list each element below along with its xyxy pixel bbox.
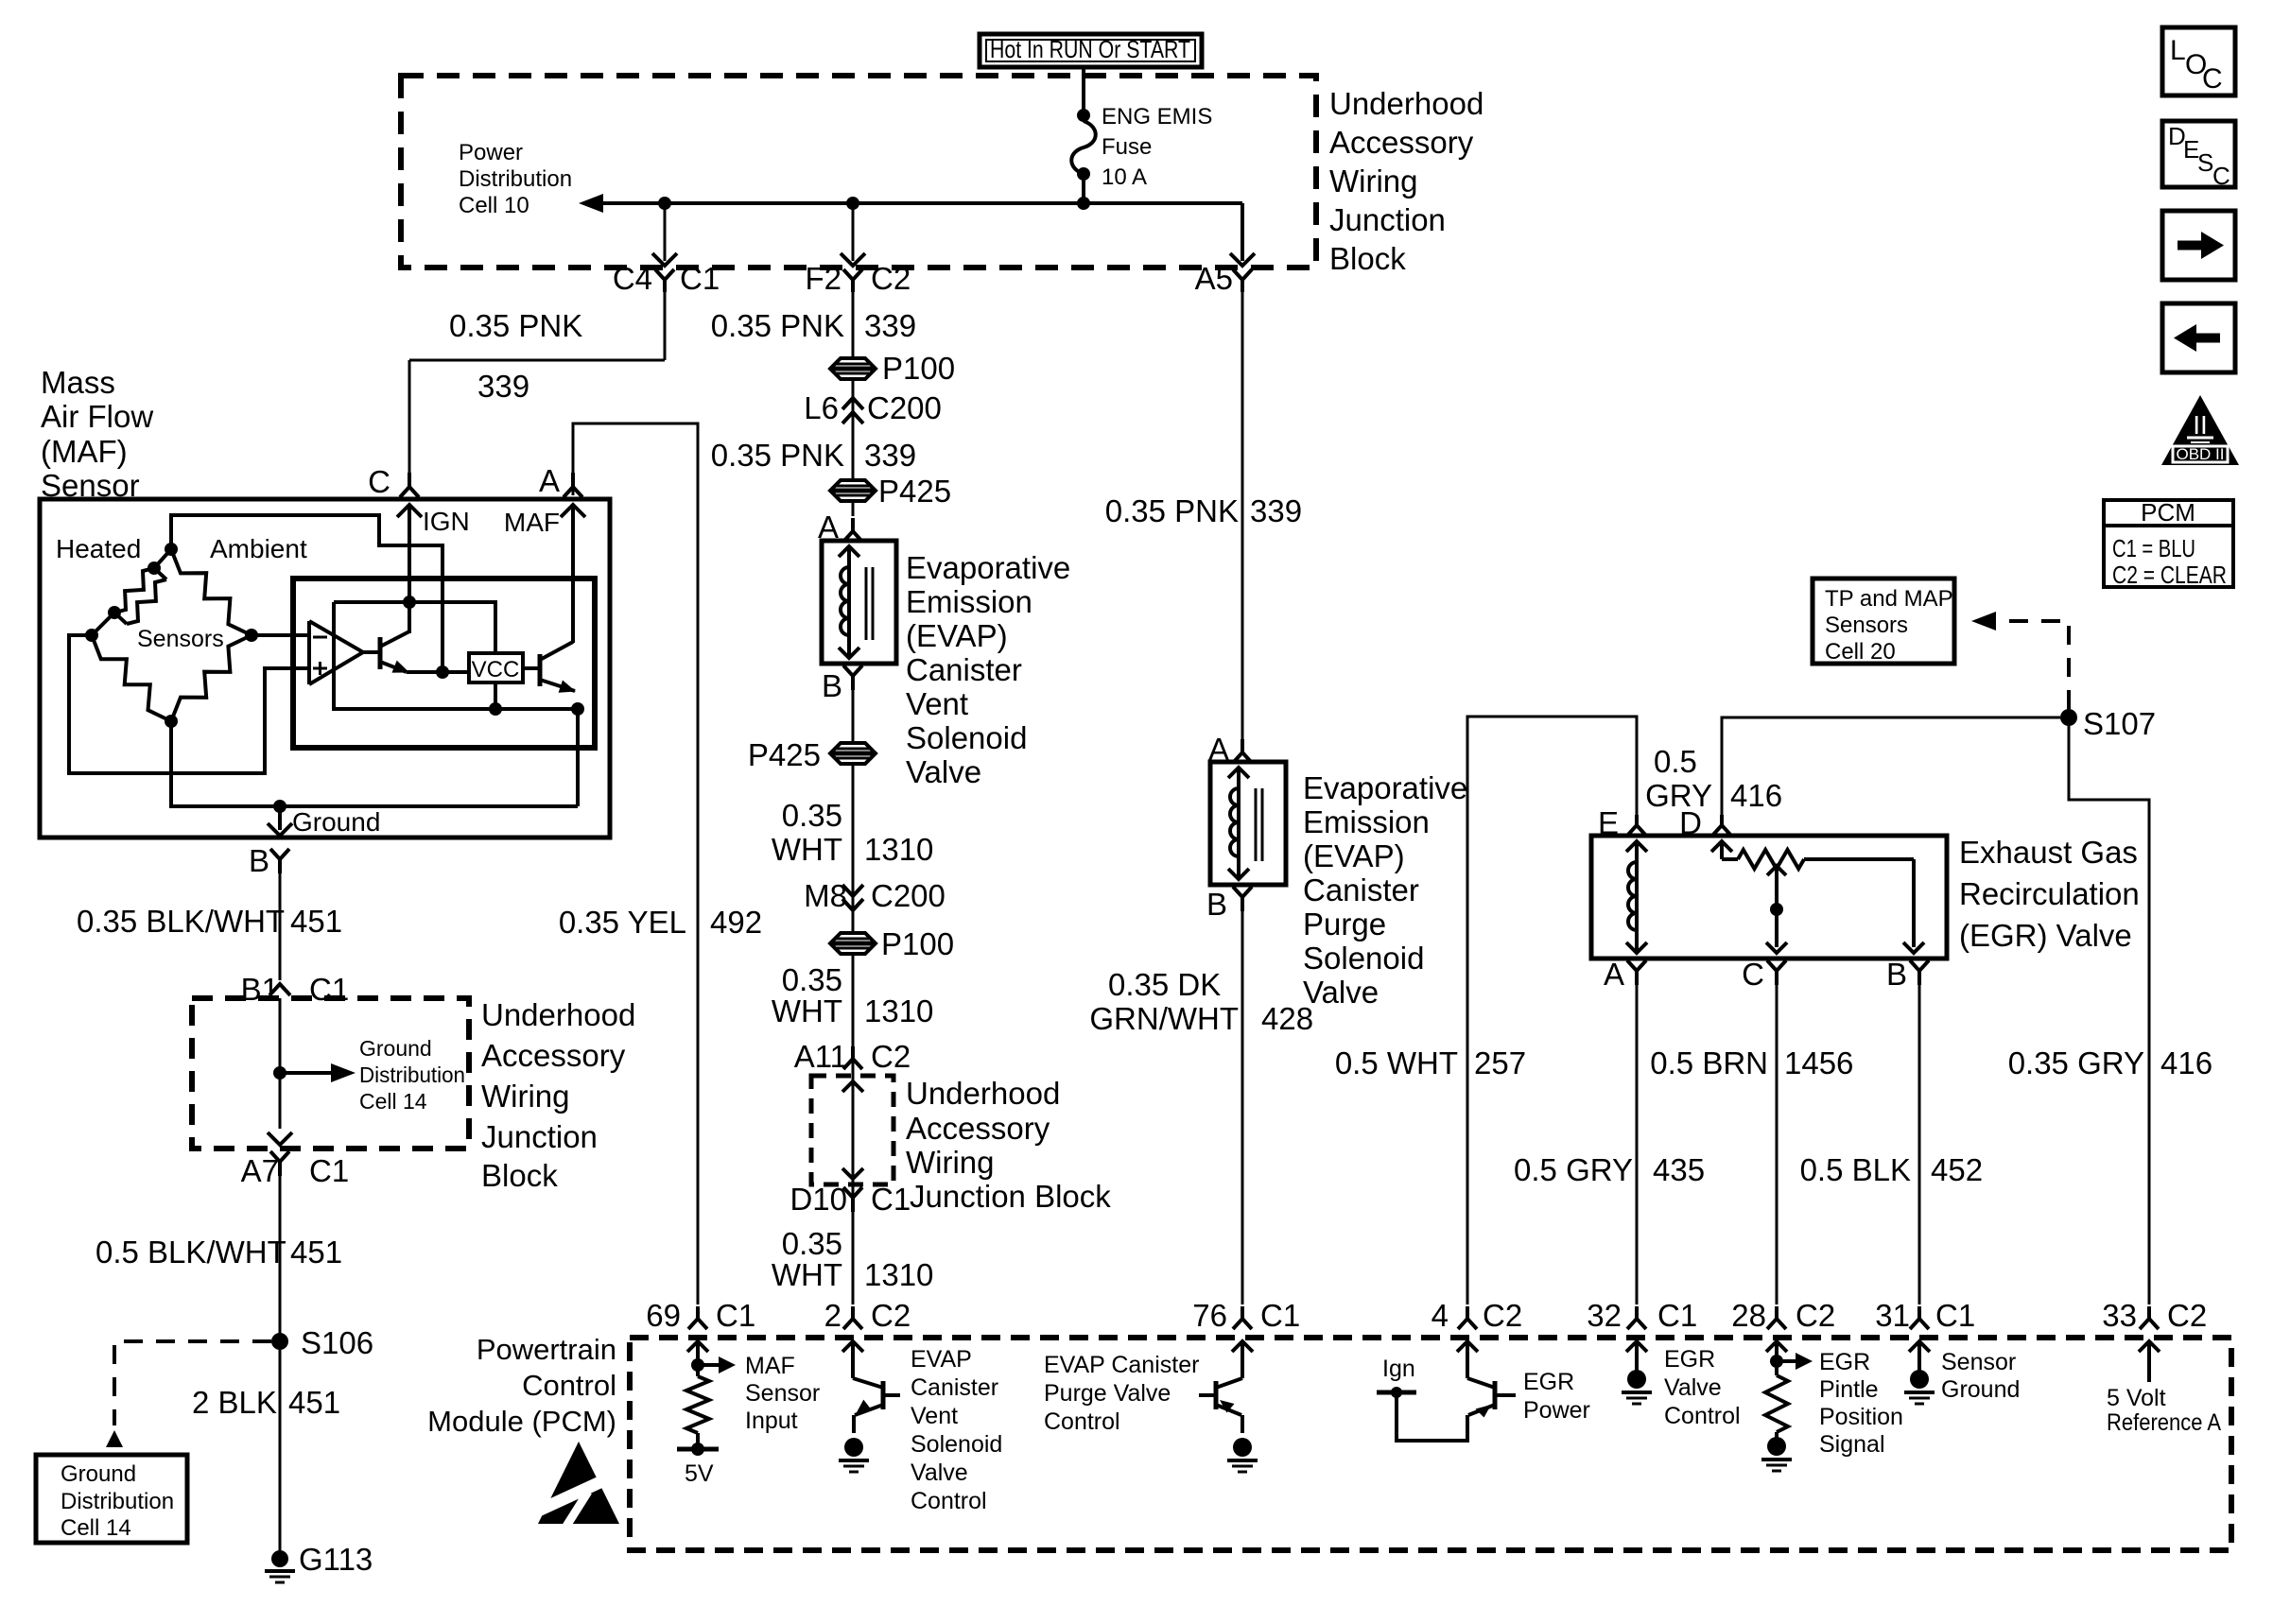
label EGR Pintle Position Signal: [1819, 1349, 1903, 1458]
exhaust gas recirculation EGR valve box: [1591, 836, 1947, 959]
label Sensors: [137, 626, 224, 652]
PCM sensor ground input: [1909, 1341, 1930, 1371]
svg-text:Wiring: Wiring: [481, 1079, 570, 1114]
label MAF Sensor Input: [745, 1353, 820, 1434]
svg-text:Accessory: Accessory: [906, 1111, 1050, 1146]
svg-text:31: 31: [1875, 1298, 1910, 1333]
wire MAF A to PCM pin 69: [573, 423, 698, 1304]
svg-text:ENG EMIS: ENG EMIS: [1102, 104, 1212, 130]
label Evaporative Emission (EVAP) Canister Vent Solenoid Valve: [906, 550, 1070, 789]
svg-text:69: 69: [646, 1298, 681, 1333]
svg-text:Block: Block: [481, 1158, 558, 1193]
EVAP vent solenoid core lines: [866, 567, 873, 640]
svg-text:P425: P425: [748, 737, 821, 772]
svg-text:0.5 BRN: 0.5 BRN: [1650, 1045, 1768, 1080]
svg-text:WHT: WHT: [772, 832, 842, 867]
svg-text:EVAP Canister: EVAP Canister: [1044, 1352, 1199, 1378]
pin 76 C1 connector: [1192, 1298, 1300, 1333]
grommet P425 (upper): [830, 474, 951, 509]
svg-text:B: B: [249, 843, 269, 878]
dashed reference wire from S106: [106, 1341, 271, 1447]
svg-text:Purge: Purge: [1303, 907, 1386, 942]
label 0.5 GRY 416: [1645, 744, 1782, 813]
wire B to B1: [279, 873, 282, 980]
junction dot C4 branch: [658, 197, 671, 210]
wire C4-C1 to MAF C pin: [409, 292, 665, 473]
splice S106: [271, 1325, 373, 1360]
svg-text:0.35 BLK/WHT: 0.35 BLK/WHT: [77, 904, 285, 939]
svg-text:C: C: [2202, 63, 2223, 95]
svg-text:435: 435: [1653, 1152, 1705, 1187]
svg-text:C1: C1: [1260, 1298, 1300, 1333]
svg-text:P100: P100: [881, 926, 954, 961]
label EGR Power: [1523, 1369, 1590, 1424]
svg-text:C2: C2: [1796, 1298, 1835, 1333]
svg-text:Ground: Ground: [292, 807, 380, 837]
connector E (EGR valve): [1598, 805, 1646, 840]
svg-text:S106: S106: [301, 1325, 373, 1360]
MAF pin B connector: [249, 843, 289, 878]
wire Q2 emitter to ground rail: [576, 709, 580, 806]
svg-text:B: B: [1206, 887, 1227, 922]
svg-text:Position: Position: [1819, 1404, 1903, 1430]
connector C4 C1: [613, 261, 720, 296]
PCM EVAP vent driver transistor: [842, 1341, 900, 1433]
wire VCC right to transistor Q2: [523, 666, 540, 670]
wire PCM pin 4 up and over to EGR E: [1467, 717, 1637, 1304]
svg-text:33: 33: [2102, 1298, 2137, 1333]
label 0.5 BRN 1456: [1650, 1045, 1853, 1080]
wire EGR B down to PCM pin 31: [1918, 985, 1921, 1304]
svg-text:Ambient: Ambient: [210, 534, 307, 563]
EVAP purge solenoid coil: [1228, 768, 1249, 879]
svg-text:10 A: 10 A: [1102, 164, 1147, 190]
connector F2 C2: [805, 261, 911, 296]
svg-text:Accessory: Accessory: [481, 1038, 626, 1073]
label 0.35 YEL 492: [559, 905, 762, 940]
svg-text:Canister: Canister: [911, 1374, 998, 1401]
connector L6 C200: [804, 390, 942, 425]
svg-text:A11: A11: [794, 1039, 847, 1074]
svg-text:0.5 BLK: 0.5 BLK: [1800, 1152, 1911, 1187]
PCM EVAP vent driver ground: [839, 1438, 869, 1472]
svg-text:WHT: WHT: [772, 1257, 842, 1292]
svg-text:P100: P100: [882, 351, 955, 386]
label 0.35 PNK 339 (C4 wire): [449, 308, 582, 404]
svg-text:G113: G113: [299, 1542, 373, 1577]
wire bridge left to op-amp plus input: [69, 635, 309, 773]
MAF bridge lower-right resistor: [171, 635, 252, 721]
pin 69 C1 connector: [646, 1298, 755, 1333]
svg-text:A5: A5: [1195, 261, 1233, 296]
wire S107 down to PCM pin 33: [2069, 726, 2149, 1304]
wire MAF ground rail: [171, 721, 578, 806]
pin 2 C2 connector: [824, 1298, 911, 1333]
svg-text:1310: 1310: [864, 832, 933, 867]
connector B1 C1: [241, 972, 350, 1007]
PCM EGR power driver (Ign): [1377, 1341, 1516, 1441]
PCM EGR valve control ground: [1622, 1370, 1652, 1404]
svg-text:C2: C2: [1483, 1298, 1522, 1333]
svg-text:Cell 20: Cell 20: [1825, 639, 1896, 665]
junction dot fuse to bus: [1077, 197, 1090, 210]
svg-text:Valve: Valve: [1303, 975, 1379, 1010]
label ENG EMIS Fuse 10 A: [1102, 104, 1212, 190]
label 0.35 WHT 1310 (middle): [772, 962, 934, 1028]
svg-text:Junction: Junction: [1329, 202, 1446, 237]
power feed box Hot In RUN Or START: [980, 34, 1202, 67]
junction dot ground distribution branch: [273, 1066, 286, 1080]
svg-text:0.5 GRY: 0.5 GRY: [1514, 1152, 1633, 1187]
connector D (EGR valve): [1679, 805, 1731, 840]
wire through middle junction block: [842, 1081, 863, 1179]
svg-text:C: C: [2212, 162, 2230, 190]
svg-text:Module (PCM): Module (PCM): [427, 1405, 616, 1438]
wire bridge top to VCC node: [171, 515, 442, 671]
label 0.35 PNK 339 (upper): [711, 308, 916, 343]
svg-text:Emission: Emission: [906, 584, 1032, 619]
MAF bridge lower-left resistor: [92, 635, 171, 721]
dashed reference wire S107 to TP and MAP sensors: [1971, 612, 2069, 709]
svg-text:Cell 14: Cell 14: [61, 1515, 131, 1541]
MAF bridge node top: [165, 543, 178, 556]
label 0.35 WHT 1310 (lower): [772, 1226, 934, 1292]
svg-text:Ground: Ground: [1941, 1376, 2020, 1403]
svg-text:0.35 YEL: 0.35 YEL: [559, 905, 686, 940]
svg-text:428: 428: [1261, 1001, 1313, 1036]
connector A (EGR valve): [1604, 957, 1646, 992]
svg-text:0.5: 0.5: [1654, 744, 1697, 779]
MAF bridge ambient resistor: [171, 549, 252, 635]
EVAP vent solenoid coil: [839, 546, 859, 658]
powertrain control module dashed box: [630, 1338, 2231, 1550]
wire EVAP purge B down to PCM pin 76: [1241, 911, 1244, 1304]
svg-text:Sensor: Sensor: [745, 1380, 820, 1407]
svg-text:(MAF): (MAF): [41, 434, 128, 469]
svg-text:0.35: 0.35: [782, 1226, 842, 1261]
svg-text:WHT: WHT: [772, 993, 842, 1028]
label Mass Air Flow (MAF) Sensor: [41, 365, 153, 503]
label Underhood Accessory Wiring Junction Block (top): [1329, 86, 1484, 276]
svg-text:IGN: IGN: [423, 507, 470, 536]
svg-text:0.5 WHT: 0.5 WHT: [1335, 1045, 1458, 1080]
svg-text:F2: F2: [805, 261, 842, 296]
svg-text:B: B: [1886, 957, 1907, 992]
svg-text:GRN/WHT: GRN/WHT: [1089, 1001, 1239, 1036]
wire F2 branch drop: [841, 203, 865, 266]
wire IGN vertical inside MAF: [408, 544, 411, 633]
svg-text:EGR: EGR: [1523, 1369, 1574, 1395]
svg-text:Valve: Valve: [1664, 1374, 1722, 1401]
wire EGR C down to PCM pin 28: [1776, 985, 1778, 1304]
svg-text:C1: C1: [1657, 1298, 1697, 1333]
svg-text:0.35: 0.35: [782, 798, 842, 833]
label Heated: [56, 534, 141, 563]
svg-text:339: 339: [864, 438, 916, 473]
label EVAP Canister Vent Solenoid Valve Control: [911, 1346, 1002, 1514]
label 0.35 PNK 339 (purge wire): [1105, 493, 1302, 528]
label Underhood Accessory Wiring Junction Block (left): [481, 997, 635, 1193]
PCM 5 volt reference A input: [2139, 1341, 2160, 1382]
pin 31 C1 connector: [1875, 1298, 1975, 1333]
svg-text:A: A: [1604, 957, 1624, 992]
wire MAF output vertical inside: [571, 544, 575, 643]
svg-text:C1: C1: [680, 261, 720, 296]
connector A7 C1: [241, 1151, 350, 1188]
svg-text:Sensors: Sensors: [1825, 613, 1908, 638]
svg-text:Ign: Ign: [1382, 1356, 1415, 1382]
connector D10 C1: [789, 1182, 911, 1217]
MAF bridge node right: [245, 629, 258, 642]
underhood accessory wiring junction block (middle) dashed box: [811, 1076, 894, 1184]
label Evaporative Emission (EVAP) Canister Purge Solenoid Valve: [1303, 770, 1467, 1010]
grommet P100 (lower): [830, 926, 954, 961]
svg-text:1310: 1310: [864, 993, 933, 1028]
svg-text:Powertrain: Powertrain: [477, 1333, 616, 1366]
svg-text:5V: 5V: [685, 1460, 714, 1487]
label 5 Volt Reference A: [2107, 1385, 2221, 1436]
DESC legend box: [2162, 121, 2235, 190]
PCM EGR pintle position circuit: [1765, 1341, 1813, 1438]
svg-text:451: 451: [290, 904, 342, 939]
svg-text:416: 416: [2160, 1045, 2212, 1080]
svg-text:Valve: Valve: [911, 1460, 968, 1486]
svg-text:Air Flow: Air Flow: [41, 399, 153, 434]
ground distribution cell 14 box: [36, 1455, 187, 1543]
svg-text:Ground: Ground: [61, 1461, 136, 1487]
label EVAP Canister Purge Valve Control: [1044, 1352, 1199, 1435]
connector A (EVAP purge valve): [1208, 732, 1252, 767]
previous page arrow box: [2162, 303, 2235, 372]
svg-text:452: 452: [1931, 1152, 1983, 1187]
connector B (EGR valve): [1886, 957, 1929, 992]
label 0.35 GRY 416: [2008, 1045, 2212, 1080]
svg-text:339: 339: [864, 308, 916, 343]
svg-text:II: II: [2193, 410, 2208, 440]
svg-text:B: B: [822, 668, 842, 703]
pin 28 C2 connector: [1731, 1298, 1835, 1333]
PCM EGR valve control input: [1626, 1341, 1647, 1371]
svg-text:Exhaust Gas: Exhaust Gas: [1959, 835, 2138, 870]
svg-text:Vent: Vent: [911, 1403, 958, 1429]
svg-text:Evaporative: Evaporative: [1303, 770, 1467, 805]
label 0.35 WHT 1310 (upper): [772, 798, 934, 867]
svg-text:EGR: EGR: [1664, 1346, 1715, 1373]
wire from Hot In RUN to fuse: [1082, 67, 1085, 115]
MAF pin C connector: [368, 464, 419, 499]
PCM connector legend box: [2104, 498, 2233, 589]
svg-text:416: 416: [1730, 778, 1782, 813]
transistor Q1 (MAF internal): [380, 631, 469, 673]
connector B (EVAP vent valve): [822, 665, 862, 703]
svg-text:C: C: [1742, 957, 1764, 992]
svg-text:1456: 1456: [1784, 1045, 1853, 1080]
svg-text:451: 451: [290, 1235, 342, 1270]
svg-text:Purge Valve: Purge Valve: [1044, 1380, 1171, 1407]
svg-text:2: 2: [824, 1298, 842, 1333]
wire S107 to EGR D: [1722, 717, 2060, 818]
svg-text:Pintle: Pintle: [1819, 1376, 1879, 1403]
svg-text:Canister: Canister: [906, 652, 1022, 687]
svg-text:Cell 14: Cell 14: [359, 1089, 427, 1114]
EVAP canister purge solenoid valve box: [1210, 762, 1286, 885]
svg-text:451: 451: [288, 1385, 340, 1420]
svg-text:L: L: [2170, 35, 2186, 66]
label 0.5 BLK/WHT 451: [95, 1235, 342, 1270]
underhood accessory wiring junction block (top) dashed box: [401, 76, 1316, 268]
IGN arrow inside MAF: [397, 505, 470, 544]
wire EVAP vent B down to PCM pin 2: [852, 690, 855, 1304]
junction dot F2 branch: [846, 197, 859, 210]
svg-text:Sensor: Sensor: [1941, 1349, 2016, 1375]
svg-text:VCC: VCC: [472, 657, 520, 682]
arrow to Ground Distribution Cell 14: [280, 1036, 465, 1114]
svg-text:32: 32: [1587, 1298, 1622, 1333]
grommet P100 (upper): [830, 351, 955, 386]
svg-text:Power: Power: [1523, 1397, 1590, 1424]
svg-text:Evaporative: Evaporative: [906, 550, 1070, 585]
wire F2 down to EVAP vent A: [852, 292, 855, 516]
pin 32 C1 connector: [1587, 1298, 1697, 1333]
label 0.5 WHT 257: [1335, 1045, 1526, 1080]
svg-text:Signal: Signal: [1819, 1431, 1885, 1458]
underhood accessory wiring junction block (left) dashed box: [192, 998, 469, 1149]
svg-text:Cell 10: Cell 10: [459, 193, 529, 218]
svg-text:(EVAP): (EVAP): [906, 618, 1008, 653]
label Underhood Accessory Wiring Junction Block (middle): [906, 1076, 1111, 1214]
svg-text:0.35 PNK: 0.35 PNK: [1105, 493, 1239, 528]
svg-text:Ground: Ground: [359, 1036, 432, 1061]
svg-text:Accessory: Accessory: [1329, 125, 1474, 160]
MAF bridge heated resistor (doubled): [92, 549, 171, 635]
svg-text:(EVAP): (EVAP): [1303, 838, 1405, 873]
svg-text:C2: C2: [871, 1298, 911, 1333]
svg-text:OBD II: OBD II: [2176, 445, 2224, 463]
svg-text:C4: C4: [613, 261, 652, 296]
EVAP canister vent solenoid valve box: [822, 541, 896, 664]
wire bridge right to op-amp minus input: [252, 633, 309, 637]
svg-text:2 BLK: 2 BLK: [192, 1385, 277, 1420]
splice S107: [2060, 706, 2156, 741]
svg-text:28: 28: [1731, 1298, 1766, 1333]
svg-text:MAF: MAF: [745, 1353, 795, 1379]
label 0.35 DK GRN/WHT 428: [1089, 967, 1313, 1036]
svg-text:MAF: MAF: [504, 508, 560, 537]
next page arrow box: [2162, 211, 2235, 280]
PCM EVAP purge driver ground: [1227, 1438, 1258, 1472]
svg-text:C2: C2: [871, 1039, 911, 1074]
svg-text:Distribution: Distribution: [61, 1489, 174, 1514]
svg-text:C2: C2: [871, 261, 911, 296]
wire to VCC top: [409, 602, 495, 653]
svg-text:0.35 PNK: 0.35 PNK: [711, 438, 844, 473]
svg-text:A7: A7: [241, 1153, 279, 1188]
bus corner down to A5: [1230, 203, 1255, 266]
MAF bridge node bottom: [165, 715, 178, 728]
pin 4 C2 connector: [1431, 1298, 1523, 1333]
svg-text:A: A: [539, 463, 560, 498]
svg-text:C1: C1: [309, 972, 349, 1007]
svg-text:Block: Block: [1329, 241, 1406, 276]
svg-text:Junction Block: Junction Block: [910, 1179, 1111, 1214]
grommet P425 (lower): [748, 737, 876, 772]
svg-text:0.35: 0.35: [782, 962, 842, 997]
svg-text:0.35 PNK: 0.35 PNK: [449, 308, 582, 343]
svg-text:Recirculation: Recirculation: [1959, 876, 2140, 911]
junction dot VCC bottom rail: [489, 702, 502, 716]
svg-text:Distribution: Distribution: [359, 1063, 465, 1087]
svg-text:PCM: PCM: [2141, 498, 2195, 527]
svg-text:0.5 BLK/WHT: 0.5 BLK/WHT: [95, 1235, 286, 1270]
svg-text:Emission: Emission: [1303, 804, 1430, 839]
svg-text:C: C: [368, 464, 390, 499]
EVAP purge solenoid core lines: [1256, 788, 1262, 861]
svg-text:C1: C1: [871, 1182, 911, 1217]
svg-text:Power: Power: [459, 140, 523, 165]
junction dot ground rail: [273, 800, 286, 813]
label Power Distribution Cell 10: [459, 140, 572, 218]
MAF pin A connector: [539, 463, 582, 498]
svg-text:C200: C200: [867, 390, 942, 425]
svg-text:Underhood: Underhood: [906, 1076, 1060, 1111]
svg-text:Vent: Vent: [906, 686, 968, 721]
svg-text:L6: L6: [804, 390, 839, 425]
PCM EGR pintle ground: [1761, 1437, 1792, 1471]
LOC legend box: [2162, 27, 2235, 95]
svg-text:EVAP: EVAP: [911, 1346, 972, 1373]
svg-text:Valve: Valve: [906, 754, 981, 789]
svg-text:Underhood: Underhood: [481, 997, 635, 1032]
PCM MAF sensor input circuit: [677, 1341, 736, 1487]
wire op-amp output to transistor: [363, 650, 380, 654]
svg-text:C1 = BLU: C1 = BLU: [2112, 534, 2195, 562]
svg-text:339: 339: [477, 369, 529, 404]
svg-text:C200: C200: [871, 878, 946, 913]
OBD II triangle symbol: [2161, 395, 2239, 465]
label EGR Valve Control: [1664, 1346, 1741, 1429]
svg-text:Solenoid: Solenoid: [911, 1431, 1002, 1458]
svg-text:339: 339: [1250, 493, 1302, 528]
svg-text:1310: 1310: [864, 1257, 933, 1292]
connector A (EVAP vent valve): [818, 510, 862, 544]
label 0.35 PNK 339 (lower): [711, 438, 916, 473]
MAF arrow inside MAF: [504, 505, 585, 544]
svg-text:0.35 PNK: 0.35 PNK: [711, 308, 844, 343]
svg-text:C1: C1: [1935, 1298, 1975, 1333]
svg-text:Input: Input: [745, 1408, 798, 1434]
svg-text:P425: P425: [878, 474, 951, 509]
svg-text:C1: C1: [309, 1153, 349, 1188]
svg-text:Sensors: Sensors: [137, 626, 224, 652]
svg-text:Distribution: Distribution: [459, 166, 572, 192]
svg-text:Solenoid: Solenoid: [906, 720, 1027, 755]
MAF bridge node left: [85, 629, 98, 642]
PCM EVAP purge driver transistor: [1199, 1341, 1253, 1433]
svg-text:TP and MAP: TP and MAP: [1825, 586, 1953, 612]
svg-text:492: 492: [710, 905, 762, 940]
svg-text:Control: Control: [1044, 1408, 1120, 1435]
svg-text:Control: Control: [1664, 1403, 1741, 1429]
fuse ENG EMIS 10A symbol: [1071, 109, 1096, 203]
svg-text:4: 4: [1431, 1298, 1449, 1333]
svg-text:Fuse: Fuse: [1102, 134, 1152, 160]
MAF internal amp box: [293, 579, 595, 748]
wire EGR A down to PCM pin 32: [1636, 985, 1639, 1304]
TP and MAP Sensors Cell 20 box: [1813, 579, 1954, 665]
ground G113: [265, 1542, 373, 1582]
svg-text:Heated: Heated: [56, 534, 141, 563]
svg-text:257: 257: [1474, 1045, 1526, 1080]
